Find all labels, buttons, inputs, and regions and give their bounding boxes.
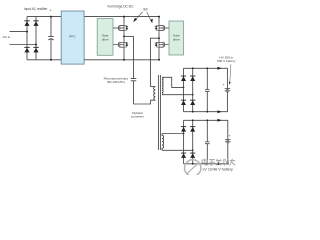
- junction C4 bottom: [206, 163, 208, 165]
- wire bridge right branch: [35, 17, 37, 60]
- svg-text:PFC: PFC: [69, 34, 76, 38]
- wire LV secondary top stub: [162, 133, 184, 135]
- diode D1 input bridge top-left: [24, 20, 29, 26]
- junction HV bottom rail right branch: [192, 111, 194, 113]
- arrowhead HV top rail: [217, 67, 221, 70]
- junction HV secondary to left branch: [183, 87, 185, 89]
- wire AC line 1: [10, 31, 28, 33]
- annotation leader HV battery: [230, 64, 231, 82]
- junction right leg bottom rail: [158, 59, 160, 61]
- diode D6 HV top-right: [190, 76, 195, 81]
- arrowhead LV top rail: [217, 119, 221, 122]
- junction right leg top rail: [158, 16, 160, 18]
- inductor T1 primary winding: [154, 87, 156, 101]
- transformer T1 core: [158, 75, 160, 150]
- wire HV output top rail: [184, 68, 228, 88]
- wire right leg midpoint tap: [150, 38, 159, 86]
- wire resonant return to primary bottom: [134, 100, 156, 104]
- diode D4 input bridge bottom-right: [33, 47, 38, 53]
- wire HV rectifier right branch: [192, 68, 194, 111]
- junction left leg midpoint: [123, 36, 125, 38]
- wire LV rectifier left branch: [183, 120, 185, 164]
- wire HV output bottom rail: [184, 92, 228, 112]
- diode D5 HV top-left: [181, 76, 186, 81]
- arrowhead HV bottom rail: [217, 110, 221, 113]
- svg-text:+: +: [229, 134, 231, 138]
- wire LV rectifier right branch: [192, 120, 194, 164]
- wire LV output top rail: [184, 120, 228, 139]
- wire bridge left branch: [26, 17, 28, 60]
- junction LV secondary to left branch: [183, 133, 185, 135]
- annotation arrow SiC to Q2: [147, 12, 153, 23]
- svg-text:LV 12/48 V battery: LV 12/48 V battery: [203, 168, 233, 172]
- junction AC line 2 to bridge: [35, 44, 37, 46]
- junction LV top rail right branch: [192, 119, 194, 121]
- junction left leg top rail: [123, 16, 125, 18]
- battery BT2 LV: [225, 140, 231, 143]
- svg-text:SiC: SiC: [143, 8, 149, 12]
- junction C4 top: [206, 119, 208, 121]
- diode D12 LV bottom-right: [190, 153, 195, 158]
- junction C1 top: [50, 16, 52, 18]
- wire LV output bottom rail: [184, 143, 228, 164]
- junction HV top rail right branch: [192, 67, 194, 69]
- wire AC line 2: [10, 44, 37, 46]
- svg-text:drive: drive: [173, 37, 180, 41]
- svg-text:+: +: [49, 9, 52, 13]
- capacitor C4 LV filter: [205, 120, 210, 164]
- svg-text:(50-150 kHz): (50-150 kHz): [107, 80, 125, 84]
- wire full-bridge left leg: [123, 17, 125, 60]
- svg-text:+: +: [222, 83, 224, 87]
- junction C3 bottom: [206, 111, 208, 113]
- inductor T1 secondary HV winding: [162, 77, 163, 94]
- wire left leg midpoint tap: [124, 35, 134, 37]
- junction right leg midpoint: [158, 37, 160, 39]
- wire primary top stub: [150, 86, 155, 88]
- gate driver U2 block right: [169, 21, 184, 55]
- arrowhead LV bottom rail: [217, 162, 221, 165]
- junction LV secondary to right branch: [192, 149, 194, 151]
- transistor Q1 SiC MOSFET top-left: [113, 23, 128, 32]
- svg-text:Full bridge DC-DC: Full bridge DC-DC: [107, 4, 134, 8]
- wire HV secondary bottom stub: [162, 94, 193, 96]
- svg-text:drive: drive: [102, 37, 109, 41]
- PFC block: [61, 11, 84, 64]
- svg-text:Input AC rectifier: Input AC rectifier: [24, 7, 49, 11]
- junction C1 bottom: [50, 59, 52, 61]
- transistor Q2 SiC MOSFET top-right: [155, 23, 169, 32]
- wire LV secondary bottom stub: [162, 149, 193, 151]
- diode D10 LV top-right: [190, 126, 195, 131]
- diode D3 input bridge bottom-left: [24, 47, 29, 53]
- svg-text:500 V battery: 500 V battery: [217, 59, 236, 63]
- capacitor C2 resonant: [131, 36, 137, 104]
- inductor T2 secondary LV winding: [162, 134, 164, 151]
- diode D8 HV bottom-right: [190, 100, 195, 105]
- diode D2 input bridge top-right: [33, 20, 38, 26]
- watermark logo circle: [185, 160, 201, 176]
- transistor Q3 SiC MOSFET bottom-left: [113, 41, 128, 49]
- capacitor C1 DC bus: [48, 17, 54, 60]
- svg-text:AC in: AC in: [3, 35, 11, 39]
- diode D9 LV top-left: [181, 126, 186, 131]
- watermark CJK text: [202, 159, 235, 166]
- svg-text:converter: converter: [131, 114, 144, 118]
- transistor Q4 SiC MOSFET bottom-right: [155, 41, 169, 49]
- wire full-bridge right leg: [158, 17, 160, 60]
- junction HV secondary to right branch: [192, 94, 194, 96]
- wire top DC rail input section: [27, 16, 159, 18]
- capacitor C3 HV filter: [205, 68, 210, 111]
- diode D11 LV bottom-left: [181, 153, 186, 158]
- battery BT1 HV: [225, 89, 231, 92]
- junction left leg bottom rail: [123, 59, 125, 61]
- junction AC line 1 to bridge: [26, 31, 28, 33]
- wire HV secondary top stub: [162, 77, 184, 87]
- diode D7 HV bottom-left: [181, 100, 186, 105]
- gate driver U1 block left: [97, 19, 113, 56]
- junction C3 top: [206, 67, 208, 69]
- junction LV bottom rail right branch: [192, 163, 194, 165]
- annotation arrow SiC to Q1: [133, 12, 142, 22]
- wire HV rectifier left branch: [183, 68, 185, 111]
- wire bottom DC rail input section: [27, 59, 159, 61]
